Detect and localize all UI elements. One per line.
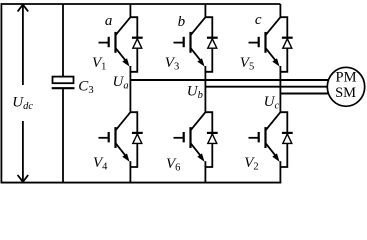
- svg-text:a: a: [105, 13, 113, 29]
- svg-text:c: c: [255, 12, 262, 28]
- svg-text:b: b: [178, 14, 186, 30]
- svg-text:PM: PM: [336, 69, 357, 85]
- svg-text:SM: SM: [335, 85, 356, 101]
